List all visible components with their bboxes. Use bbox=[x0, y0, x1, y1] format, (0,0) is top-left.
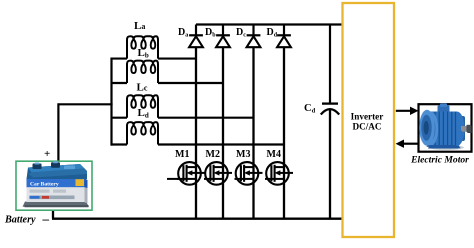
svg-text:Car Battery: Car Battery bbox=[30, 181, 59, 187]
wire: top DC bus from diode cathodes to inverter bbox=[196, 23, 342, 25]
inductor Ld bbox=[127, 122, 158, 144]
electric motor box bbox=[419, 104, 472, 152]
wire: left inductor feed bus bbox=[110, 58, 112, 146]
svg-text:M2: M2 bbox=[206, 149, 220, 160]
svg-text:Battery: Battery bbox=[4, 215, 36, 226]
diode Dc bbox=[247, 25, 261, 48]
wire: inverter to motor arrow bbox=[396, 110, 412, 112]
inductor La bbox=[127, 36, 158, 58]
wire: battery negative lead down bbox=[52, 206, 54, 219]
svg-text:Dc: Dc bbox=[236, 27, 246, 39]
wire: row d left bbox=[111, 143, 128, 145]
inverter U1 box bbox=[343, 3, 395, 237]
wire: battery positive lead up bbox=[58, 104, 112, 163]
battery artwork bbox=[23, 161, 90, 207]
transistor M4 bbox=[265, 162, 293, 185]
wire: phase column 1 (diode anode to bottom bus) bbox=[195, 46, 197, 219]
wire: bottom return bus from battery to inverter bbox=[52, 218, 342, 220]
svg-text:M1: M1 bbox=[175, 149, 189, 160]
svg-text:M3: M3 bbox=[236, 149, 250, 160]
inductor Lb bbox=[127, 61, 158, 83]
transistor M1 bbox=[177, 162, 205, 185]
wire: row a right to node 1 bbox=[158, 58, 196, 60]
transistor M3 bbox=[235, 162, 263, 185]
wire: row c right to node 3 bbox=[158, 117, 254, 119]
transistor M2 bbox=[204, 162, 232, 185]
svg-text:Inverter: Inverter bbox=[351, 112, 384, 122]
wire: row b right to node 2 bbox=[158, 82, 223, 84]
svg-text:DC/AC: DC/AC bbox=[352, 121, 381, 131]
diode Dd bbox=[277, 25, 291, 48]
wire: row a left bbox=[111, 58, 128, 60]
battery box bbox=[16, 161, 92, 210]
wire: capacitor bottom lead bbox=[329, 110, 331, 219]
svg-text:La: La bbox=[134, 20, 145, 32]
wire: row b left bbox=[111, 82, 128, 84]
wire: row d right to node 4 bbox=[158, 143, 284, 145]
capacitor Cd bbox=[322, 102, 338, 104]
svg-text:Dd: Dd bbox=[267, 27, 278, 39]
svg-text:Db: Db bbox=[205, 27, 216, 39]
wire: phase column 4 bbox=[283, 46, 285, 219]
svg-text:Electric Motor: Electric Motor bbox=[410, 154, 469, 165]
svg-text:Da: Da bbox=[178, 27, 188, 39]
svg-text:Ld: Ld bbox=[138, 107, 149, 120]
svg-text:Cd: Cd bbox=[304, 103, 316, 115]
svg-text:–: – bbox=[42, 211, 50, 226]
wire: motor to inverter arrow bbox=[402, 143, 418, 145]
svg-text:Lb: Lb bbox=[138, 47, 149, 60]
svg-text:M4: M4 bbox=[267, 149, 281, 160]
inductor Lc bbox=[127, 95, 158, 117]
svg-text:Lc: Lc bbox=[137, 82, 148, 94]
wire: capacitor top lead bbox=[329, 25, 331, 103]
diode Db bbox=[216, 25, 230, 48]
diode Da bbox=[189, 25, 203, 48]
svg-text:+: + bbox=[44, 148, 50, 160]
wire: phase column 3 bbox=[252, 46, 254, 219]
wire: row c left bbox=[111, 117, 128, 119]
motor artwork bbox=[424, 103, 472, 150]
wire: phase column 2 bbox=[222, 46, 224, 219]
